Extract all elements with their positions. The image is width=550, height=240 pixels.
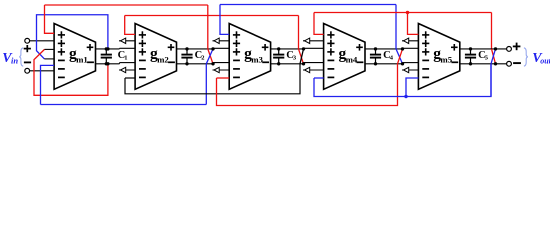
svg-text:m5: m5 [440,54,452,64]
svg-text:2: 2 [201,55,204,62]
svg-text:5: 5 [485,55,489,62]
svg-text:4: 4 [390,55,394,62]
svg-text:3: 3 [293,55,297,62]
svg-text:m4: m4 [346,54,358,64]
svg-text:in: in [11,56,18,66]
svg-text:out: out [540,56,550,65]
svg-text:1: 1 [124,55,127,62]
svg-text:m3: m3 [251,54,263,64]
svg-text:m2: m2 [157,54,169,64]
svg-text:m1: m1 [76,54,88,64]
